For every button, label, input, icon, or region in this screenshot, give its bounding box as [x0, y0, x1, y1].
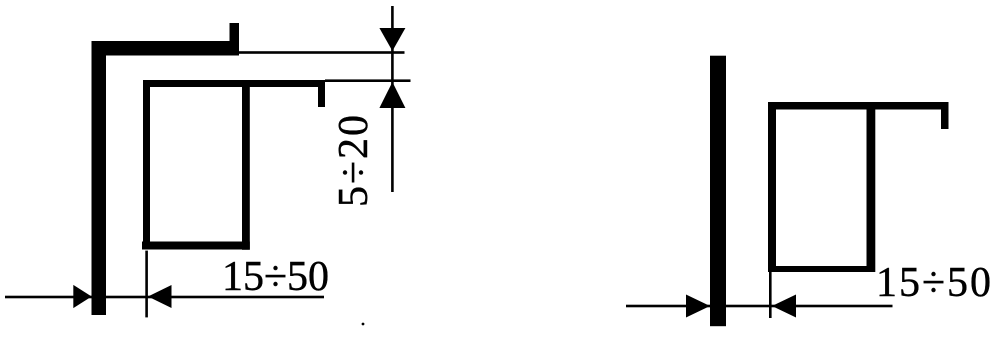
svg-text:5÷20: 5÷20 [331, 113, 377, 207]
svg-text:15÷50: 15÷50 [876, 260, 993, 306]
svg-text:15÷50: 15÷50 [222, 254, 329, 300]
